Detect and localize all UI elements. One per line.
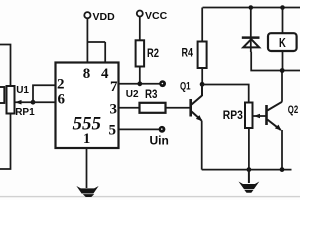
svg-text:U2: U2 xyxy=(126,89,139,100)
resistor RP1 xyxy=(7,86,15,114)
wire relay bottom xyxy=(282,51,284,71)
transistor Q1 xyxy=(191,85,202,121)
svg-text:3: 3 xyxy=(110,101,118,117)
Q1 emitter arrow xyxy=(196,115,202,121)
wire diode top xyxy=(250,8,252,53)
node diode top xyxy=(249,5,254,10)
ground rail bottom xyxy=(202,169,292,171)
wire pin8 to VDD xyxy=(86,18,88,62)
diode VD cathode bar xyxy=(242,36,260,39)
svg-text:R2: R2 xyxy=(147,46,159,60)
terminal pin7 output xyxy=(159,80,166,87)
wire Q1 collector to RP3 xyxy=(203,85,249,103)
component cut at left edge xyxy=(0,87,4,103)
wire Q2 emitter down xyxy=(281,130,283,170)
svg-text:R3: R3 xyxy=(145,87,158,101)
terminal Uin xyxy=(159,126,166,133)
wire Q1 emitter down xyxy=(201,121,203,170)
node RP3 ground xyxy=(247,167,252,172)
svg-text:RP1: RP1 xyxy=(15,107,35,118)
svg-text:4: 4 xyxy=(101,66,109,82)
terminal VCC xyxy=(137,11,143,17)
wire pin5 xyxy=(118,128,159,130)
IC 555 timer box xyxy=(56,63,119,149)
wire pin4 xyxy=(104,42,106,63)
wire R2 bottom xyxy=(139,67,141,84)
transistor Q2 xyxy=(267,102,283,130)
svg-text:1: 1 xyxy=(83,131,90,147)
node Q2 emitter ground xyxy=(280,167,285,172)
svg-text:8: 8 xyxy=(83,66,91,82)
RP1 wiper wire xyxy=(15,101,34,103)
wire diode bottom xyxy=(251,52,300,71)
resistor R3 xyxy=(140,103,166,113)
wire RP3 bottom xyxy=(248,128,250,170)
ground symbol center xyxy=(248,170,250,183)
svg-text:K: K xyxy=(279,36,286,50)
svg-text:2: 2 xyxy=(57,76,65,92)
wire R3 to Q1 base xyxy=(166,107,191,109)
svg-text:VCC: VCC xyxy=(145,10,168,22)
Q2 emitter arrow xyxy=(275,125,281,131)
top rail VCC xyxy=(203,7,301,9)
wire RP1 bottom exit left xyxy=(0,114,11,170)
node relay bottom xyxy=(280,68,285,73)
wire RP3 wiper to Q2 base xyxy=(253,115,267,117)
relay K coil xyxy=(268,33,297,51)
svg-text:VDD: VDD xyxy=(93,11,116,23)
svg-text:RP3: RP3 xyxy=(223,110,243,122)
svg-text:U1: U1 xyxy=(16,85,29,96)
svg-text:7: 7 xyxy=(110,79,118,95)
resistor R2 xyxy=(136,40,145,66)
terminal VDD xyxy=(84,12,90,18)
svg-text:6: 6 xyxy=(58,91,66,107)
svg-text:R4: R4 xyxy=(182,46,194,60)
potentiometer RP3 xyxy=(245,103,253,129)
wire pin7 xyxy=(118,83,160,85)
wire R4 top xyxy=(201,8,203,42)
node junction RP1-pin2/6 xyxy=(31,100,36,105)
wire bridge pin8-pin4 xyxy=(87,41,105,43)
resistor R4 xyxy=(198,42,207,69)
wire relay top xyxy=(282,8,284,34)
wire pin1 to ground xyxy=(86,148,88,188)
wire Q2 collector up xyxy=(281,71,283,102)
wire pin2 xyxy=(33,85,56,102)
wire R4 bottom xyxy=(201,68,203,85)
wire left entry top xyxy=(0,45,11,87)
wire pin3 to R3 xyxy=(118,107,139,109)
svg-text:Q2: Q2 xyxy=(288,104,298,116)
diode VD triangle xyxy=(243,39,259,47)
node R2/pin7 xyxy=(137,81,142,86)
node relay top xyxy=(280,5,285,10)
svg-text:Q1: Q1 xyxy=(180,80,191,92)
RP3 wiper arrow xyxy=(254,114,261,118)
wire pin6 xyxy=(33,101,56,103)
node Q1 collector xyxy=(200,82,205,87)
wire VCC to R2 xyxy=(139,17,141,41)
scan artifact bottom line xyxy=(0,196,300,197)
svg-text:5: 5 xyxy=(109,122,117,138)
svg-text:Uin: Uin xyxy=(150,134,169,148)
RP1 wiper arrow xyxy=(15,100,22,105)
ground pin1 xyxy=(76,186,98,197)
